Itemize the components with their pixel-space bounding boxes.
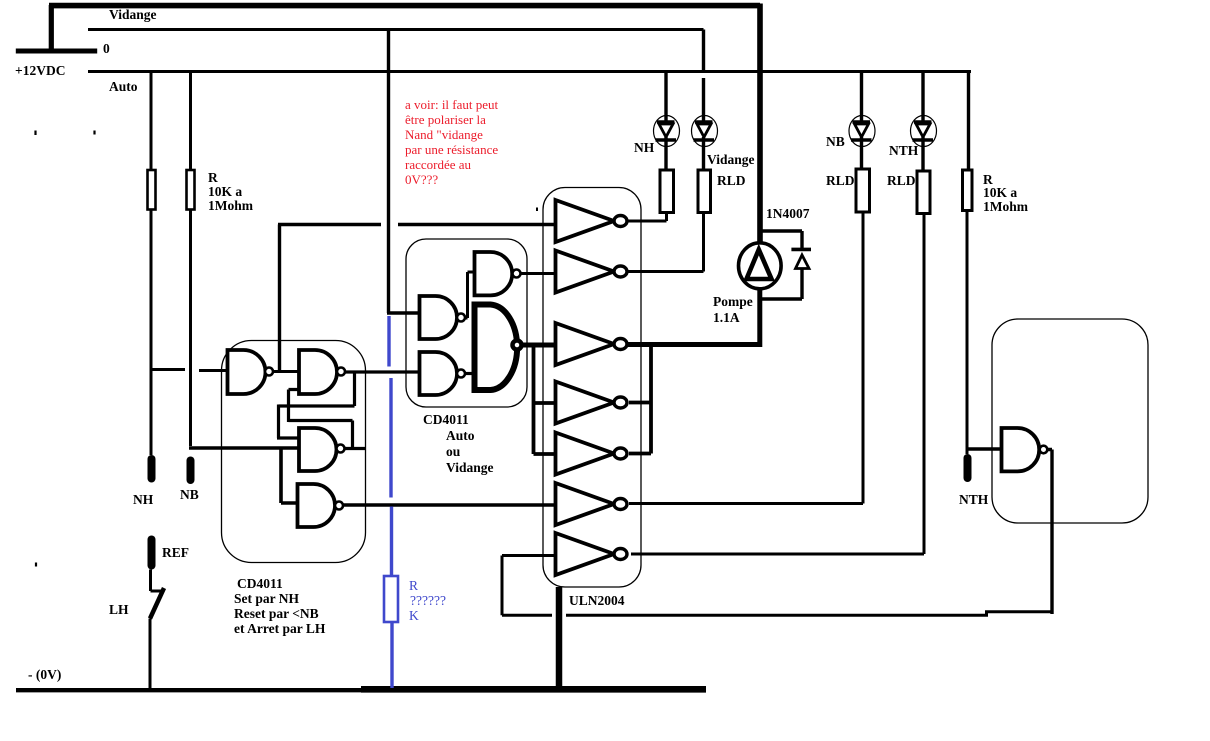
svg-text:R: R xyxy=(409,578,418,593)
svg-text:NH: NH xyxy=(133,492,154,507)
wire NB branch down to U1D input xyxy=(281,448,298,503)
resistor R 10K a 1Mohm (NTH) xyxy=(963,170,973,211)
svg-text:NH: NH xyxy=(634,140,655,155)
inverter U3.4 bubble xyxy=(614,397,627,408)
svg-text:ou: ou xyxy=(446,444,461,459)
IC U1 CD4011 box (left) xyxy=(222,341,366,563)
resistor RLD (Vidange) xyxy=(698,170,711,213)
resistor R 10K a 1Mohm (NB pull-up) xyxy=(187,170,195,210)
wire blue net segment 3 xyxy=(390,507,393,577)
wire U1D out to ULN in6 xyxy=(343,503,554,506)
svg-text:- (0V): - (0V) xyxy=(28,667,61,682)
nand N1 output bubble xyxy=(1040,446,1048,454)
led Vidange xyxy=(692,116,718,147)
wire NB pull-up branch xyxy=(189,72,192,447)
inverter U3.1 bubble xyxy=(614,216,627,227)
svg-text:REF: REF xyxy=(162,545,189,560)
svg-text:Vidange: Vidange xyxy=(707,152,755,167)
switch LH blade xyxy=(150,588,164,619)
wire ULN out2 to RLD Vidange xyxy=(627,213,704,272)
resistor RLD (NH) xyxy=(660,170,674,213)
nand U1D output bubble xyxy=(335,502,343,510)
inverter U3.2 bubble xyxy=(614,266,627,277)
wire U2D out to ULN in3 (thick) xyxy=(522,343,555,348)
wire ULN in3-in4-in5 tie vertical xyxy=(534,345,556,454)
stray mark 3 xyxy=(35,563,37,567)
inverter U3.6 bubble xyxy=(614,499,627,510)
svg-text:Reset par <NB: Reset par <NB xyxy=(234,606,319,621)
svg-text:NB: NB xyxy=(180,487,199,502)
svg-text:a voir: il faut peut: a voir: il faut peut xyxy=(405,97,499,112)
wire LH to 0V rail xyxy=(149,619,152,690)
battery +12VDC terminal vertical xyxy=(49,5,54,53)
led NH xyxy=(654,116,680,147)
inverter U3.3 xyxy=(556,323,615,365)
nand U1C xyxy=(299,428,337,471)
wire ULN out6 to RLD NB xyxy=(629,212,863,504)
wire Vidange LED branch xyxy=(702,30,705,171)
led NB xyxy=(849,116,875,147)
nand U1A output bubble xyxy=(265,368,273,376)
diode D1 1N4007 cathode bar xyxy=(791,248,811,252)
switch NB contact cap xyxy=(187,457,195,485)
inverter U3.4 xyxy=(556,382,615,424)
pump M1 triangle xyxy=(747,250,772,280)
wire U1A out to U1B in xyxy=(273,370,299,373)
stray mark 4 xyxy=(536,208,538,212)
wire +12V end corner down to R NTH xyxy=(967,72,970,171)
svg-text:1N4007: 1N4007 xyxy=(766,206,810,221)
wire ULN out1 to RLD NH xyxy=(627,213,667,222)
wire N1 out down to lower bus xyxy=(1047,450,1052,615)
svg-text:1.1A: 1.1A xyxy=(713,310,740,325)
nand U2C xyxy=(420,352,458,395)
wire NH pull-up branch xyxy=(150,72,153,456)
wire ULN ground pin (thick) xyxy=(556,587,563,690)
wire R NTH down to switch NTH xyxy=(966,211,969,455)
stray mark 1 xyxy=(34,131,36,136)
nand U2C output bubble xyxy=(457,370,465,378)
nand U1A xyxy=(228,350,266,394)
svg-text:+12VDC: +12VDC xyxy=(15,63,65,78)
wire ULN in1 feed (vertical from node) xyxy=(278,225,281,372)
svg-text:par une résistance: par une résistance xyxy=(405,142,498,157)
wire NB LED branch xyxy=(860,72,863,170)
svg-text:NTH: NTH xyxy=(889,143,919,158)
svg-text:0: 0 xyxy=(103,41,110,56)
wire pump bottom to ULN out3 (thick) xyxy=(757,288,762,347)
wire NB to U1C input xyxy=(189,446,299,450)
wire NH LED branch xyxy=(664,72,667,171)
inverter U3.5 xyxy=(556,433,615,475)
inverter U3.2 xyxy=(556,251,615,293)
wire latch feedback U1B out down xyxy=(277,373,355,438)
wire NTH node to N1 input xyxy=(967,447,1002,450)
svg-text:RLD: RLD xyxy=(717,173,746,188)
svg-text:R: R xyxy=(208,170,218,185)
wire 0V bus xyxy=(88,28,704,31)
wire U2C out to U2D in xyxy=(465,372,477,375)
wire REF to LH switch xyxy=(151,570,165,592)
IC U3 ULN2004 box xyxy=(543,188,641,588)
inverter U3.7 bubble xyxy=(614,549,627,560)
svg-text:Vidange: Vidange xyxy=(109,7,157,22)
svg-text:et Arret par LH: et Arret par LH xyxy=(234,621,326,636)
svg-text:Auto: Auto xyxy=(109,79,138,94)
wire lower bus from N1 output (long) xyxy=(566,612,1052,616)
switch NH contact cap xyxy=(148,455,156,483)
svg-text:1Mohm: 1Mohm xyxy=(208,198,254,213)
svg-text:être polariser la: être polariser la xyxy=(405,112,486,127)
switch NTH contact cap xyxy=(964,454,972,482)
svg-text:10K a: 10K a xyxy=(208,184,242,199)
svg-text:LH: LH xyxy=(109,602,129,617)
svg-text:K: K xyxy=(409,608,419,623)
wire ULN in1 feed (horizontal, right part) xyxy=(398,223,554,226)
nand U1B output bubble xyxy=(337,368,345,376)
wire Vidange bus (thick top rail) xyxy=(49,4,760,244)
wire ULN in1 feed (horizontal, left part) xyxy=(278,223,381,226)
nand U2D output bubble (thick) xyxy=(513,341,522,350)
nand U2B xyxy=(420,296,458,339)
wire U1B out to U2C in xyxy=(345,370,420,373)
wire NTH LED branch xyxy=(921,72,924,172)
svg-text:RLD: RLD xyxy=(826,173,855,188)
diode D1 triangle xyxy=(796,255,810,269)
wire blue net segment 2 xyxy=(389,378,392,498)
resistor RLD (NB) xyxy=(856,169,870,212)
svg-text:Set par NH: Set par NH xyxy=(234,591,300,606)
wire ULN out7 to RLD NTH xyxy=(631,214,924,555)
inverter U3.5 bubble xyxy=(614,448,627,459)
svg-text:10K a: 10K a xyxy=(983,185,1017,200)
wire NH to gate U1A input (segment 1) xyxy=(150,368,186,371)
svg-text:Pompe: Pompe xyxy=(713,294,753,309)
stray mark 2 xyxy=(93,131,95,135)
annotation red note text xyxy=(405,97,499,187)
svg-text:Nand "vidange: Nand "vidange xyxy=(405,127,483,142)
resistor R (NH pull-up) xyxy=(148,170,156,210)
inverter U3.6 xyxy=(556,483,615,525)
svg-text:Auto: Auto xyxy=(446,428,475,443)
wire 0V bottom rail xyxy=(16,688,368,692)
wire blue net segment 1 xyxy=(387,316,390,367)
wire NH to gate U1A input (segment 2) xyxy=(199,369,228,372)
svg-text:??????: ?????? xyxy=(410,593,446,608)
wire U2A out to ULN in2 xyxy=(521,272,555,275)
wire 0V bus drop to U2B input xyxy=(387,30,420,314)
svg-text:raccordée au: raccordée au xyxy=(405,157,472,172)
led NTH xyxy=(911,116,937,147)
svg-text:CD4011: CD4011 xyxy=(237,576,283,591)
resistor R ?????? K (blue) xyxy=(384,576,398,622)
svg-text:NB: NB xyxy=(826,134,845,149)
nand U2D (thick) xyxy=(475,305,518,391)
battery +12VDC terminal bar xyxy=(16,49,97,54)
wire ULN out3 thick to pump xyxy=(627,342,762,347)
wire U2B out up to U2A in xyxy=(465,272,475,318)
nand U1C output bubble xyxy=(337,445,345,453)
nand N1 xyxy=(1002,428,1040,471)
inverter U3.7 xyxy=(556,533,615,575)
wire latch feedback U1C out up xyxy=(289,390,367,451)
svg-text:1Mohm: 1Mohm xyxy=(983,199,1029,214)
svg-text:ULN2004: ULN2004 xyxy=(569,593,625,608)
svg-text:NTH: NTH xyxy=(959,492,989,507)
nand U2B output bubble xyxy=(457,314,465,322)
svg-text:RLD: RLD xyxy=(887,173,916,188)
svg-text:0V???: 0V??? xyxy=(405,172,438,187)
resistor RLD (NTH) xyxy=(917,171,930,214)
wire ULN out3-4-5 tie vertical xyxy=(629,342,651,454)
switch REF contact cap xyxy=(148,536,156,570)
inverter U3.3 bubble xyxy=(614,339,627,350)
wire diode anode down to pump bottom xyxy=(762,269,802,300)
svg-text:CD4011: CD4011 xyxy=(423,412,469,427)
wire blue net segment 4 xyxy=(390,622,393,688)
pump M1 circle xyxy=(739,243,782,289)
nand U1D xyxy=(298,484,336,527)
nand U2A xyxy=(475,252,513,295)
IC N1 box (right) xyxy=(992,319,1148,523)
wire U3 in7 from lower bus xyxy=(502,556,554,616)
svg-text:Vidange: Vidange xyxy=(446,460,494,475)
wire pump top branch to diode xyxy=(761,231,802,249)
inverter U3.1 xyxy=(556,200,615,242)
IC U2 CD4011 box (right) xyxy=(406,239,527,407)
wire +12V bus xyxy=(88,70,971,73)
nand U1B xyxy=(299,350,337,394)
nand U2A output bubble xyxy=(513,270,521,278)
